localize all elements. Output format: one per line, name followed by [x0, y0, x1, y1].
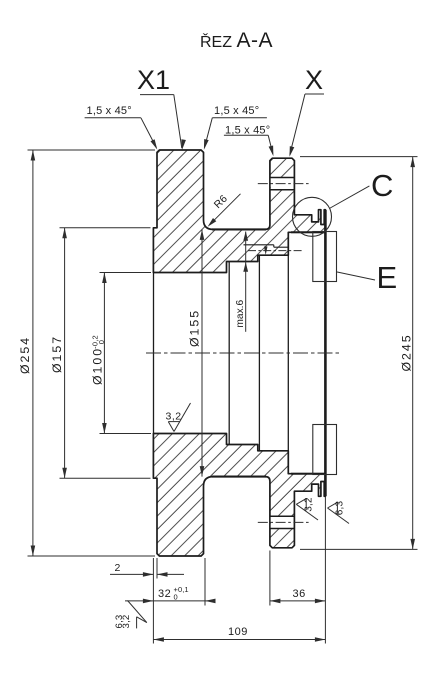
dimension Ø155 text — [188, 309, 202, 347]
svg-text:X: X — [305, 65, 323, 95]
dimension 2 line and arrows — [110, 572, 184, 577]
surface finish 6,3 / 3,2 bottom left (triangle + texts) — [114, 601, 147, 629]
bolt hole axis (bottom) dash-dot — [258, 521, 310, 523]
dimension 109 text — [228, 626, 248, 638]
svg-text:109: 109 — [228, 626, 248, 638]
dimension Ø157 extension lines — [60, 228, 151, 478]
svg-text:3,2: 3,2 — [166, 410, 182, 422]
leader to label C — [329, 186, 369, 209]
retaining ring E (top) outline — [313, 232, 337, 282]
dimension Ø254 text — [18, 336, 32, 374]
surface finish 6,3 on end face (rotated triangle + text) — [328, 501, 350, 524]
pin hole axis dash-dot — [248, 250, 303, 252]
dimension Ø155 line and arrows — [200, 229, 205, 476]
surface finish 3,2 on bore (triangle + text) — [166, 403, 191, 432]
svg-text:32: 32 — [158, 588, 171, 600]
dimension max.6 line and arrows — [243, 231, 248, 331]
dimension max.6 text — [235, 299, 246, 327]
chamfer label 1,5 x 45 deg (middle) with leader — [204, 105, 267, 150]
svg-text:3,2: 3,2 — [304, 497, 315, 512]
title REZ A-A — [200, 29, 273, 52]
svg-text:E: E — [377, 260, 398, 295]
bolt hole (bottom flange) white cut — [270, 516, 295, 528]
pin hole edge line — [244, 244, 274, 246]
svg-text:2: 2 — [115, 562, 121, 574]
dimension Ø100 text — [91, 347, 105, 385]
pin hole end cap — [274, 245, 289, 247]
svg-text:X1: X1 — [137, 65, 170, 95]
svg-text:0: 0 — [174, 593, 178, 602]
svg-text:C: C — [371, 168, 393, 203]
label E — [377, 260, 398, 295]
dimension Ø100 tolerance text — [91, 335, 107, 349]
dimension 32 line and arrows — [125, 599, 216, 604]
dimension 32 tolerance text — [174, 585, 189, 602]
dimension Ø254 line and arrows — [31, 150, 36, 556]
label X with underline and leader arrow — [290, 65, 325, 157]
bore mouth edge at left face — [153, 273, 155, 434]
fillet label R6 with leader — [208, 193, 241, 227]
surface finish 3,2 on flange face (rotated triangle + text) — [296, 497, 318, 520]
svg-text:0: 0 — [97, 340, 106, 344]
pin depth arrow — [264, 246, 268, 255]
svg-text:Ø245: Ø245 — [400, 333, 414, 371]
svg-text:36: 36 — [293, 588, 306, 600]
leader to label E — [337, 272, 375, 280]
thick barrel OD line top (Ø155 surface) — [212, 228, 266, 230]
thick right end face of part — [324, 210, 327, 496]
dimension Ø100 line and arrows — [102, 273, 107, 434]
dimension 32 text — [158, 588, 171, 600]
bore shoulder edge at recess 3 — [287, 233, 289, 474]
thick barrel OD line bottom — [212, 476, 266, 478]
label X1 with underline and leader arrow — [137, 65, 186, 150]
svg-text:1,5 x 45°: 1,5 x 45° — [214, 105, 259, 117]
hub flange section outline and hatching (bottom half) — [153, 434, 325, 557]
dimension 2 text — [115, 562, 121, 574]
detail circle C — [293, 197, 332, 236]
dimension Ø157 line and arrows — [62, 228, 67, 478]
dimension 36 text — [293, 588, 306, 600]
extension lines below part — [153, 497, 325, 644]
thick rim bore line top — [291, 231, 325, 233]
chamfer label 1,5 x 45 deg (right) with leader — [224, 124, 274, 156]
dimension Ø254 extension lines — [28, 150, 156, 556]
dimension 109 line and arrows — [153, 637, 325, 642]
hub flange section outline and hatching (top half) — [153, 150, 325, 273]
label C — [371, 168, 393, 203]
svg-text:max.6: max.6 — [235, 299, 246, 327]
bolt hole (top flange) white cut — [270, 178, 295, 190]
svg-text:Ø157: Ø157 — [50, 335, 64, 373]
bolt hole axis (top) dash-dot — [258, 183, 310, 185]
bore shoulder edge at recess 1 — [228, 262, 230, 444]
dimension Ø245 text — [400, 333, 414, 371]
svg-text:Ø155: Ø155 — [188, 309, 202, 347]
svg-text:6,3: 6,3 — [335, 501, 346, 516]
part axis center line — [146, 352, 342, 354]
dimension 36 line and arrows — [270, 599, 326, 604]
retaining ring E (bottom) outline — [313, 425, 337, 475]
dimension Ø100 extension lines — [100, 273, 152, 434]
bore shoulder edge at recess 2 — [258, 256, 260, 451]
svg-text:1,5 x 45°: 1,5 x 45° — [87, 105, 132, 117]
dimension Ø157 text — [50, 335, 64, 373]
svg-text:Ø254: Ø254 — [18, 336, 32, 374]
dimension Ø245 line and arrows — [410, 157, 415, 550]
dimension Ø245 extension lines — [300, 157, 418, 550]
svg-text:Ø100: Ø100 — [91, 347, 105, 385]
thick rim bore line bottom — [291, 473, 325, 475]
svg-text:3,2: 3,2 — [121, 615, 132, 629]
svg-text:1,5 x 45°: 1,5 x 45° — [225, 124, 270, 136]
chamfer label 1,5 x 45 deg (left) with leader — [85, 105, 158, 150]
